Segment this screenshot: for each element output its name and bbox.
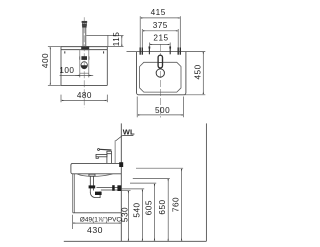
dim 375 [142, 29, 178, 47]
right border line [205, 123, 207, 241]
bracket ticks front view [65, 51, 104, 53]
svg-text:650: 650 [158, 199, 167, 214]
svg-text:375: 375 [153, 21, 168, 30]
hidden drain box front view [80, 50, 89, 74]
dim line 650 [167, 179, 169, 240]
dim 100 [60, 73, 94, 77]
ext 530 [121, 189, 130, 191]
counter top front view [61, 47, 107, 50]
svg-text:605: 605 [144, 200, 153, 215]
svg-text:415: 415 [151, 8, 166, 17]
centerline plan [159, 44, 161, 118]
dim 430 [73, 215, 121, 229]
WL label [116, 127, 135, 141]
basin inner bowl plan [140, 62, 181, 92]
svg-text:Ø49(1⅞")PVC: Ø49(1⅞")PVC [80, 216, 122, 223]
dim 480 [61, 95, 107, 103]
dim 500 [137, 97, 183, 118]
faucet side view [96, 149, 111, 164]
wall bracket side view [119, 162, 123, 167]
svg-text:530: 530 [120, 207, 129, 222]
counter slab side view [71, 163, 121, 173]
trap bend nut [95, 192, 102, 195]
faucet front view [81, 21, 89, 50]
svg-text:450: 450 [193, 64, 202, 79]
dim 415 [140, 16, 180, 47]
faucet hole witness line side view [114, 141, 116, 164]
faucet hole plan [158, 55, 162, 68]
cabinet side view [73, 174, 122, 213]
svg-text:500: 500 [155, 106, 170, 115]
floor line [64, 240, 207, 242]
dim 400 [48, 47, 61, 86]
svg-text:115: 115 [112, 32, 121, 47]
svg-text:480: 480 [77, 91, 92, 100]
mounting bolts plan [140, 46, 180, 54]
svg-text:215: 215 [153, 34, 168, 43]
pipe union nut [112, 185, 115, 191]
svg-text:400: 400 [41, 53, 50, 68]
dim line 605 [154, 184, 156, 240]
dim 215 [149, 43, 170, 47]
basin underside curve side view [77, 174, 113, 176]
wall line side [120, 123, 122, 241]
ext 650 [133, 177, 170, 179]
wall line plan [127, 51, 206, 53]
horizontal waste pipe side view [97, 188, 122, 190]
drain flange front view [81, 56, 87, 60]
ext 540 [121, 188, 144, 190]
basin outer outline plan [137, 51, 186, 94]
ext 760 [136, 167, 183, 169]
trap tailpipe side view [89, 174, 101, 197]
svg-text:WL: WL [123, 127, 135, 136]
svg-text:760: 760 [171, 197, 180, 212]
svg-text:100: 100 [59, 66, 74, 75]
svg-text:430: 430 [87, 225, 103, 235]
ext 605 [130, 182, 156, 184]
centerline front view [83, 17, 85, 107]
cabinet front view [61, 47, 107, 86]
dim 115 [86, 35, 123, 46]
trap cup front view [81, 62, 87, 69]
dim line 540 [141, 190, 143, 240]
dim line 530 [127, 191, 129, 240]
drain circle plan [156, 69, 164, 77]
dim 450 [184, 52, 205, 94]
pipe wall flange [117, 185, 121, 191]
svg-text:540: 540 [132, 202, 141, 217]
dim line 760 [181, 169, 183, 240]
